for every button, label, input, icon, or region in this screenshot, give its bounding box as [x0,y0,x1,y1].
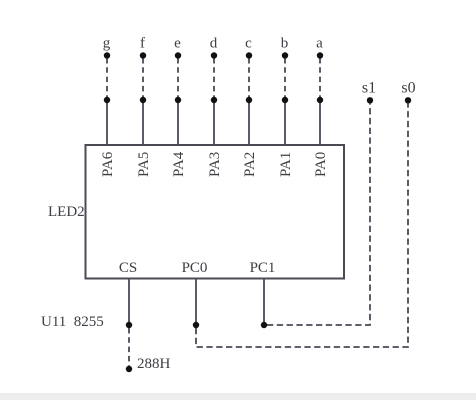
svg-text:CS: CS [119,260,137,276]
svg-text:288H: 288H [137,356,171,372]
svg-text:PA3: PA3 [207,152,223,177]
svg-text:PA4: PA4 [171,151,187,177]
svg-text:g: g [103,35,111,51]
svg-text:s0: s0 [401,80,415,97]
svg-text:PA2: PA2 [242,152,258,177]
svg-text:PA1: PA1 [278,152,294,177]
svg-text:a: a [316,35,323,51]
svg-text:PC1: PC1 [250,260,276,276]
svg-text:e: e [174,35,181,51]
svg-text:f: f [140,35,145,51]
svg-text:PC0: PC0 [182,260,208,276]
svg-text:s1: s1 [362,80,376,97]
svg-text:b: b [281,35,289,51]
svg-text:c: c [245,35,252,51]
svg-text:PA5: PA5 [136,152,152,177]
svg-text:LED2: LED2 [48,204,85,220]
svg-text:U11 8255: U11 8255 [41,314,104,330]
svg-text:PA0: PA0 [313,152,329,177]
svg-text:PA6: PA6 [100,151,116,177]
svg-text:d: d [210,35,218,51]
